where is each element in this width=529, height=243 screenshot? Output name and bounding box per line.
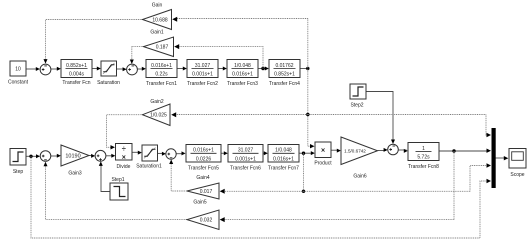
svg-text:Transfer Fcn5: Transfer Fcn5 [188,166,219,172]
divide block Divide [116,144,133,171]
wire Sum4 to Transfer Fcn5 [176,151,185,155]
wire Transfer Fcn4 to node [300,67,309,70]
svg-text:1.5/0.6742: 1.5/0.6742 [344,149,366,154]
wire Transfer Fcn7 to Product in2 with junction [299,151,315,155]
svg-text:0.852s+1: 0.852s+1 [66,63,87,69]
sum junction Sum2 [40,151,51,162]
wire Constant to Sum [26,67,40,71]
step source Step [10,149,26,176]
svg-text:Transfer Fcn7: Transfer Fcn7 [268,166,299,172]
wire Product to Gain6 [331,149,341,153]
transfer function Transfer Fcn6 [228,145,263,172]
step source Step2 [350,84,366,109]
svg-text:Scope: Scope [510,172,524,178]
wire Transfer Fcn1 to Transfer Fcn2 [177,67,187,71]
wire Sum3 to Divide in2 [106,154,115,158]
wire Gain output to Sum top [44,20,143,64]
sum junction Sum (top row 1) [40,64,51,75]
wire Transfer Fcn2 to Transfer Fcn3 [218,67,227,71]
gain Gain2 (1/0.025, points left) [143,99,171,126]
transfer function Transfer Fcn4 [269,60,300,88]
wire Transfer Fcn5 to Transfer Fcn6 [221,151,228,155]
svg-text:Transfer Fcn4: Transfer Fcn4 [269,81,300,87]
transfer function Transfer Fcn3 [227,60,258,88]
wire Step1 to Sum3 bottom [99,161,110,191]
svg-text:1/0.025: 1/0.025 [150,113,167,119]
svg-text:Step2: Step2 [350,103,363,109]
gain Gain1 (0.187, points left) [144,37,174,57]
svg-text:Divide: Divide [117,164,131,170]
gain Gain4 (0.017, points left) [187,175,219,199]
svg-text:Gain3: Gain3 [68,171,82,177]
wire Step2 to Sum5 top [366,92,395,145]
wire Transfer Fcn8 to Mux in2 with junction [439,149,491,153]
svg-text:Transfer Fcn3: Transfer Fcn3 [227,81,258,87]
mux bar [492,128,496,188]
step source Step1 (flipped, label above) [110,177,128,200]
svg-text:0.187: 0.187 [156,45,169,51]
gain Gain (10.688, points left) [143,3,172,36]
svg-text:10.688: 10.688 [152,18,168,24]
svg-text:Step1: Step1 [111,177,124,183]
svg-text:Gain2: Gain2 [150,99,164,105]
wire Sum to Transfer Fcn [51,67,61,71]
svg-text:0.0226: 0.0226 [196,156,212,162]
wire Mux to Scope [496,156,509,160]
svg-text:Transfer Fcn8: Transfer Fcn8 [408,164,439,170]
transfer function Transfer Fcn [61,60,92,87]
svg-text:0.001s+1: 0.001s+1 [192,72,213,78]
svg-text:10190: 10190 [65,154,80,160]
wire junction to Gain1 input [174,44,263,68]
svg-text:31.027: 31.027 [238,148,254,154]
svg-text:0.016s+1: 0.016s+1 [151,63,172,69]
svg-text:1/0.048: 1/0.048 [275,148,292,154]
svg-text:Transfer Fcn2: Transfer Fcn2 [187,81,218,87]
svg-text:0.016s+1: 0.016s+1 [232,72,253,78]
product block Product [314,142,332,167]
svg-text:0.016s+1: 0.016s+1 [273,156,294,162]
wire Sum1 to Transfer Fcn1 [137,67,146,71]
transfer function Transfer Fcn8 [408,143,439,171]
wire Sum2 to Gain3 [51,154,61,158]
wire Transfer Fcn7 node down to Gain4 input and Mux in3 [220,153,491,194]
wire Sum5 to Transfer Fcn8 [398,149,408,153]
wire Transfer Fcn8 node down to Gain5 input [220,151,454,222]
svg-text:10: 10 [15,67,21,73]
sum junction Sum5 [388,144,399,155]
svg-text:Gain5: Gain5 [193,200,207,206]
gain Gain3 (points right) [61,145,89,177]
transfer function Transfer Fcn2 [187,60,218,88]
wire node down trunk x307.8 [306,19,309,147]
gain Gain5 (0.032, points left) [187,200,219,230]
svg-text:1/0.048: 1/0.048 [234,63,251,69]
transfer function Transfer Fcn7 [268,145,299,172]
wire Gain4 output to Sum4 bottom [169,160,187,192]
wire trunk into Product in1 [308,144,315,148]
svg-text:Gain: Gain [152,3,163,9]
scope block Scope [509,149,526,179]
svg-text:Constant: Constant [8,80,29,86]
svg-text:÷: ÷ [122,144,126,153]
wire Step to Sum2 with junction [26,154,40,158]
svg-text:5.72s: 5.72s [417,155,430,161]
svg-text:0.01762: 0.01762 [275,63,293,69]
gain Gain6 (1.5/0.6742, points right) [341,137,378,180]
constant block "10" [8,61,29,86]
svg-text:Saturation1: Saturation1 [136,164,162,170]
svg-text:Transfer Fcn: Transfer Fcn [62,80,90,86]
svg-text:0.017: 0.017 [200,189,213,195]
wire Divide to Saturation1 [132,151,142,155]
wire Gain2 output to Divide in1 [107,115,143,150]
svg-text:×: × [122,155,126,162]
svg-text:×: × [321,148,325,155]
svg-text:0.852s+1: 0.852s+1 [274,72,295,78]
wire Saturation1 to Sum4 [158,152,166,156]
wire Transfer Fcn3 to Transfer Fcn4 with junction [258,67,269,71]
wire Transfer Fcn to Saturation [92,67,101,71]
wire Step node down along bottom to Mux in4 [31,156,491,238]
transfer function Transfer Fcn5 [186,145,221,172]
svg-text:0.032: 0.032 [200,218,213,224]
saturation block Saturation [97,61,120,86]
wire trunk to Gain input [172,17,308,22]
sum junction Sum3 [95,150,106,161]
svg-text:Transfer Fcn1: Transfer Fcn1 [146,81,177,87]
svg-text:Gain1: Gain1 [150,30,164,36]
wire trunk to Gain2 input and to Mux in1 [171,112,491,137]
svg-text:31.027: 31.027 [195,63,211,69]
sum junction Sum4 [166,149,176,159]
svg-text:Product: Product [314,161,332,167]
svg-text:Step: Step [13,169,24,175]
svg-text:1: 1 [422,146,425,152]
sum junction Sum1 (top row 2) [127,64,138,75]
transfer function Transfer Fcn1 [146,60,177,88]
svg-text:0.22s: 0.22s [155,72,168,78]
svg-text:0.001s+1: 0.001s+1 [235,156,256,162]
wire Gain6 to Sum5 [378,148,388,152]
svg-text:0.016s+1: 0.016s+1 [193,148,214,154]
wire Gain1 output to Sum1 top [130,47,144,64]
svg-text:Saturation: Saturation [97,80,120,86]
saturation block Saturation1 [136,145,162,170]
svg-text:Gain4: Gain4 [196,175,210,181]
svg-text:Gain6: Gain6 [353,174,367,180]
wire Transfer Fcn6 to Transfer Fcn7 [263,151,268,155]
wire Gain3 to Sum3 [89,154,95,158]
wire Gain5 output to Sum2 bottom [44,162,188,220]
wire Saturation to Sum1 [117,67,127,71]
svg-text:Transfer Fcn6: Transfer Fcn6 [230,166,261,172]
svg-text:0.004s: 0.004s [69,72,85,78]
